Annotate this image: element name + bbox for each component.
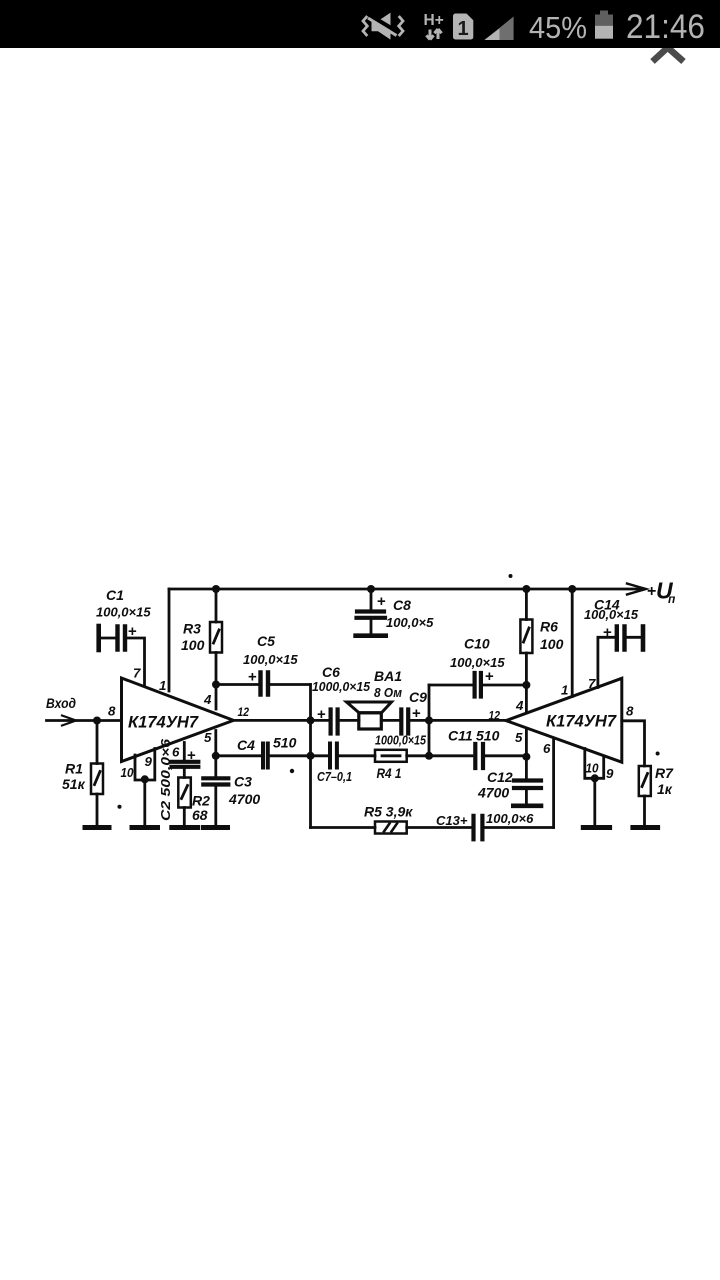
resistor R1 slash: [95, 772, 101, 785]
resistor R7 slash: [642, 774, 648, 787]
capacitor C5 plates: [261, 673, 269, 695]
wire: C9 right to node: [410, 719, 429, 722]
svg-text:C6: C6: [322, 664, 340, 680]
junction dots: [93, 574, 660, 809]
input arrowhead: [62, 716, 76, 726]
capacitor C6 plates: [331, 710, 338, 734]
SIM card 1 icon: [453, 14, 473, 40]
scan speck 2: [290, 769, 294, 773]
scan speck 1: [509, 574, 513, 578]
wire: right mid vertical: [428, 685, 431, 756]
wire: pin1 right vertical: [571, 589, 574, 697]
node: rail/C8: [367, 585, 375, 593]
svg-text:9: 9: [606, 766, 614, 781]
svg-text:C7–0,1: C7–0,1: [317, 769, 352, 784]
svg-text:12: 12: [238, 705, 250, 719]
wire: line B from pin5 node: [216, 754, 260, 757]
svg-text:+: +: [128, 623, 137, 640]
svg-text:+: +: [412, 705, 421, 722]
svg-text:C10: C10: [464, 636, 490, 652]
resistor R5 double slash: [384, 824, 397, 832]
wire: +Un top supply rail: [169, 588, 644, 591]
svg-text:10: 10: [586, 762, 599, 776]
svg-text:8: 8: [626, 704, 634, 719]
wire: C3 top lead: [214, 756, 217, 776]
scan speck 4: [118, 805, 122, 809]
wire: C13 right to pin6 corner: [485, 826, 554, 829]
svg-text:4700: 4700: [228, 791, 260, 807]
svg-text:п: п: [668, 592, 676, 606]
capacitor C8 plates: [357, 612, 386, 618]
wire: C7 right to R4: [339, 754, 375, 757]
resistor R2 body: [178, 778, 191, 808]
resistor R2 slash: [182, 786, 188, 799]
svg-text:+: +: [187, 747, 196, 764]
svg-text:К174УН7: К174УН7: [546, 712, 617, 731]
wire: pin6 right vertical: [552, 740, 555, 828]
node: mid-left / line B: [307, 752, 315, 760]
capacitor C7 plates: [330, 744, 337, 768]
node: pin5 right: [522, 753, 530, 761]
capacitor C1 plates: [118, 627, 126, 650]
svg-text:100,0×15: 100,0×15: [96, 605, 151, 620]
ground R7: [633, 825, 658, 830]
node: pin9/10 left: [141, 775, 149, 783]
pin numbers: [108, 666, 634, 782]
svg-text:1000,0×15: 1000,0×15: [312, 679, 371, 694]
svg-text:BA1: BA1: [374, 668, 402, 684]
svg-text:C3: C3: [234, 774, 252, 790]
node: pin4 left: [212, 681, 220, 689]
resistor R6 body: [520, 620, 532, 654]
wire: line A to right op-amp: [429, 719, 506, 722]
wire: pin9/10 box right: [585, 749, 604, 779]
svg-text:100,0×15: 100,0×15: [450, 655, 505, 670]
node: mid-left / line A: [307, 716, 315, 724]
ground pins 9,10 left: [132, 825, 158, 830]
wire: R1 bottom lead: [96, 794, 99, 827]
capacitor C3 plates: [203, 778, 228, 784]
text labels: [46, 578, 676, 829]
svg-text:100,0×15: 100,0×15: [584, 608, 639, 622]
ground pins 9,10 right: [583, 825, 609, 830]
wire: R6 top lead: [525, 589, 528, 620]
svg-text:100,0×15: 100,0×15: [243, 652, 298, 667]
svg-text:+: +: [377, 593, 386, 610]
capacitor C11 plates: [475, 744, 483, 768]
signal triangle: [484, 17, 513, 41]
svg-text:100,0×6: 100,0×6: [486, 811, 534, 826]
speaker BA1 body: [359, 713, 382, 729]
resistor R6 slash: [524, 628, 530, 642]
status bar: [0, 0, 720, 48]
scan speck 3: [656, 752, 660, 756]
capacitor C12 terminal bar: [513, 803, 541, 808]
capacitor C14 terminal bar: [641, 627, 646, 650]
node: pin9/10 right: [591, 774, 599, 782]
wire: C11 right to pin5 node: [486, 754, 527, 757]
svg-text:C4: C4: [237, 737, 255, 753]
wire: R4 right: [407, 754, 472, 757]
capacitor C9 plates: [401, 710, 408, 734]
op-amp DA1 left triangle: [122, 678, 234, 762]
svg-text:Вход: Вход: [46, 695, 76, 711]
svg-text:100: 100: [540, 636, 564, 652]
wire: C1 left lead: [99, 637, 115, 640]
svg-text:8: 8: [108, 704, 116, 719]
capacitor C10 plates: [475, 673, 481, 697]
svg-text:68: 68: [192, 807, 208, 823]
wire: pin6 stub: [183, 743, 186, 761]
wire: C12 bottom lead: [525, 790, 528, 805]
wire: pin9/10 right ground lead: [593, 778, 596, 827]
wire: C5 line from pin4 node: [216, 683, 258, 686]
wire: speaker to C9: [381, 719, 398, 722]
wire: C2 to R2: [183, 769, 186, 778]
ground C2 R2: [172, 825, 198, 830]
capacitor C12 plates: [514, 781, 541, 789]
resistor R7 body: [639, 766, 651, 796]
svg-text:H+: H+: [424, 12, 444, 29]
wire: C14 right lead: [627, 636, 644, 639]
battery: [600, 11, 608, 15]
svg-text:7: 7: [588, 676, 596, 691]
capacitor C1 terminal bar: [96, 626, 101, 650]
node: input/R1: [93, 717, 101, 725]
wire: input line: [47, 719, 122, 722]
svg-text:7: 7: [133, 666, 141, 681]
svg-text:51к: 51к: [62, 776, 86, 792]
wire: C6 to speaker: [340, 719, 359, 722]
svg-text:1: 1: [159, 678, 166, 693]
wire: C4 right: [270, 754, 327, 757]
svg-text:8 Ом: 8 Ом: [374, 685, 402, 700]
ground C3: [203, 825, 227, 830]
wire: C1 right lead to pin7: [127, 638, 145, 686]
node: rail/R3: [212, 585, 220, 593]
wire: C8 top lead: [370, 589, 373, 610]
svg-text:+: +: [248, 669, 257, 686]
svg-text:+: +: [647, 583, 656, 600]
node: pin4 right: [522, 681, 530, 689]
svg-text:10: 10: [121, 766, 134, 780]
svg-text:5: 5: [515, 730, 523, 745]
svg-text:6: 6: [172, 745, 180, 760]
X close icon (bottom half visible under status bar): [653, 48, 684, 62]
resistor R5 body: [375, 822, 407, 834]
svg-text:1к: 1к: [657, 781, 673, 797]
svg-text:5: 5: [204, 730, 212, 745]
wire: pin1 left vertical: [168, 589, 171, 691]
svg-text:45%: 45%: [529, 10, 587, 45]
resistor R1 body: [91, 764, 103, 795]
wire: output line A left: [234, 719, 328, 722]
svg-text:C2 500,0×6: C2 500,0×6: [158, 738, 173, 821]
svg-text:C9: C9: [409, 689, 427, 705]
node: pin5 left: [212, 752, 220, 760]
svg-text:R4 1: R4 1: [377, 765, 402, 781]
capacitor C2 plates: [172, 762, 199, 767]
svg-text:R7: R7: [655, 765, 674, 781]
svg-text:C13+: C13+: [436, 813, 468, 828]
wire: C10 line left corner: [429, 684, 472, 687]
svg-text:К174УН7: К174УН7: [128, 713, 199, 732]
capacitor C14 plates: [617, 627, 625, 650]
capacitor C4 plates: [263, 744, 268, 768]
wire: pin4 right lead: [525, 685, 528, 713]
svg-text:4: 4: [515, 698, 524, 713]
wire: C10 right to pin4 node: [483, 684, 526, 687]
wire: R1 top lead: [96, 721, 99, 764]
wire: left mid vertical (C5 to bottom line): [309, 685, 312, 828]
svg-text:6: 6: [543, 741, 551, 756]
svg-text:12: 12: [489, 709, 501, 723]
resistor R4 body: [375, 750, 407, 762]
+Un arrowhead: [627, 584, 646, 595]
svg-text:1: 1: [561, 683, 568, 698]
capacitor C13 plates: [474, 816, 483, 840]
wire: R2 bottom lead: [183, 808, 186, 828]
resistor R3 slash: [214, 630, 220, 643]
resistor R4 dash: [382, 754, 400, 757]
wire: pin8 right to R7: [622, 721, 645, 766]
speaker BA1 horn: [347, 702, 392, 713]
svg-text:C8: C8: [393, 597, 411, 613]
capacitor C8 terminal bar: [356, 633, 386, 638]
svg-text:R1: R1: [65, 761, 83, 777]
wire: R6 bottom to pin4 node: [525, 653, 528, 685]
svg-text:1000,0×15: 1000,0×15: [375, 733, 427, 748]
svg-text:4700: 4700: [477, 785, 509, 801]
svg-text:+: +: [485, 668, 494, 685]
wire: C5 right to mid vertical: [271, 683, 311, 686]
wire: R5 to C13: [407, 826, 471, 829]
svg-text:510: 510: [273, 735, 297, 751]
svg-text:100,0×5: 100,0×5: [386, 615, 434, 630]
svg-text:C12: C12: [487, 769, 513, 785]
wire: bottom line C: [311, 826, 376, 829]
resistor R3 body: [210, 622, 222, 653]
svg-text:9: 9: [145, 754, 153, 769]
ground R1: [85, 825, 109, 830]
wire: pin7 right to C14: [598, 637, 614, 687]
wire: pin9/10 ground lead: [143, 780, 146, 828]
node: rail/pin1 right: [568, 585, 576, 593]
node: mid-right / line A: [425, 716, 433, 724]
svg-text:C1: C1: [106, 587, 124, 603]
svg-text:1: 1: [458, 18, 469, 40]
wire: C8 bottom lead: [370, 620, 373, 634]
wire: C12 top lead: [525, 757, 528, 778]
wire: R3 bottom to pin4 node: [215, 653, 218, 685]
svg-text:+: +: [603, 624, 612, 641]
wire: pin4 left lead: [215, 685, 218, 710]
svg-text:R5 3,9к: R5 3,9к: [364, 804, 413, 820]
svg-text:C11: C11: [448, 728, 473, 744]
op-amp DA2 right triangle: [506, 678, 622, 762]
wire: R7 bottom lead: [643, 796, 646, 827]
wire: pin9/10 box left: [135, 749, 155, 781]
svg-text:100: 100: [181, 637, 205, 653]
svg-text:+: +: [317, 706, 326, 723]
wire: pin5 left lead: [214, 731, 217, 756]
node: rail/R6: [522, 585, 530, 593]
wire: R3 top lead: [215, 589, 218, 622]
svg-text:R6: R6: [540, 619, 558, 635]
svg-text:C5: C5: [257, 633, 275, 649]
svg-text:4: 4: [203, 692, 212, 707]
node: mid-right / line B: [425, 752, 433, 760]
vibrate icon: [363, 13, 403, 40]
svg-text:21:46: 21:46: [626, 8, 705, 46]
svg-text:510: 510: [476, 728, 500, 744]
svg-text:R3: R3: [183, 621, 201, 637]
wire: pin5 right lead: [525, 729, 528, 757]
wire: C3 bottom lead: [214, 787, 217, 828]
